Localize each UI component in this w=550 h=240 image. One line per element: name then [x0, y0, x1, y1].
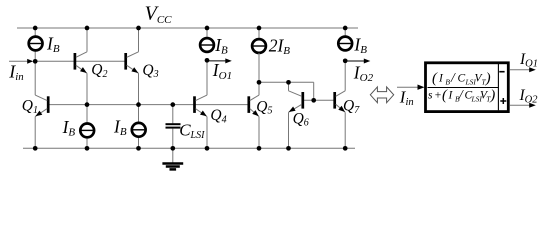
block output IO1 — [510, 69, 531, 71]
block output IO2 — [510, 104, 531, 106]
block divider — [497, 64, 499, 110]
transistor Q1 — [35, 95, 48, 148]
current source IB right — [338, 37, 352, 51]
junction dot input node — [33, 59, 38, 64]
capacitor CLSI — [166, 105, 181, 149]
transistor Q6 — [289, 82, 303, 148]
transistor Q2 — [75, 28, 87, 105]
input arrowhead — [27, 59, 33, 64]
wire 2IB to Q5 collector node — [258, 53, 260, 82]
junction dots base bus — [85, 102, 90, 107]
block minus sign — [499, 71, 504, 73]
svg-text:s: s — [428, 90, 433, 102]
transistor Q7 — [335, 61, 346, 149]
wire input node down to Q1 collector — [34, 61, 36, 95]
block numerator — [432, 70, 491, 87]
junction dot Q6 Q7 base line — [311, 98, 316, 103]
transistor Q5 — [249, 82, 259, 148]
current source IB bottom 2 — [132, 123, 146, 137]
svg-text:+: + — [434, 90, 442, 102]
ground — [162, 148, 183, 169]
svg-text:C: C — [458, 73, 466, 85]
wire ground bottom rail — [23, 147, 355, 149]
block plus sign — [500, 100, 506, 102]
wire riser Q2-emitter node to bottom IB source 1 — [86, 105, 88, 149]
svg-text:B: B — [445, 78, 450, 87]
arrow IO2 — [346, 60, 367, 62]
wire riser rail to IB right — [344, 28, 346, 37]
wire top link Q5 to corner — [259, 81, 314, 83]
svg-text:): ) — [489, 88, 495, 104]
junction dots Q5 Q6 top link — [257, 80, 262, 85]
equivalence symbol — [370, 87, 393, 103]
block denominator — [428, 87, 495, 104]
wire VCC top rail — [17, 27, 358, 29]
arrow IO1 — [207, 60, 227, 62]
block box — [426, 63, 509, 112]
junction dots top rail — [33, 26, 38, 31]
wire riser Q3-emitter node to bottom IB source 2 — [138, 105, 140, 149]
wire riser rail to IB source mid — [206, 28, 208, 39]
node dot below IB right — [343, 58, 348, 63]
block input wire Iin — [397, 86, 419, 88]
transistor Q3 — [126, 28, 139, 105]
wire left riser x=35.2 rail to input node — [34, 28, 36, 61]
current source IB bottom 1 — [80, 123, 94, 137]
transistor Q4 — [195, 60, 208, 148]
current source IB mid — [200, 38, 214, 52]
wire input node to Q2 Q3 bases — [35, 60, 126, 62]
svg-text:): ) — [485, 71, 491, 87]
wire Q6 base to Q7 base — [303, 99, 335, 101]
wire corner down to Q6 Q7 base line — [313, 82, 315, 100]
wire main base bus — [48, 104, 249, 106]
wire riser rail to 2IB source — [258, 28, 260, 39]
current source IB left (circle) — [29, 37, 43, 51]
block fraction bar — [428, 87, 499, 89]
current source 2IB — [252, 39, 266, 53]
junction dots bottom rail — [33, 146, 38, 151]
wire input Iin horizontal — [9, 60, 30, 62]
node dot below IB mid — [205, 58, 210, 63]
